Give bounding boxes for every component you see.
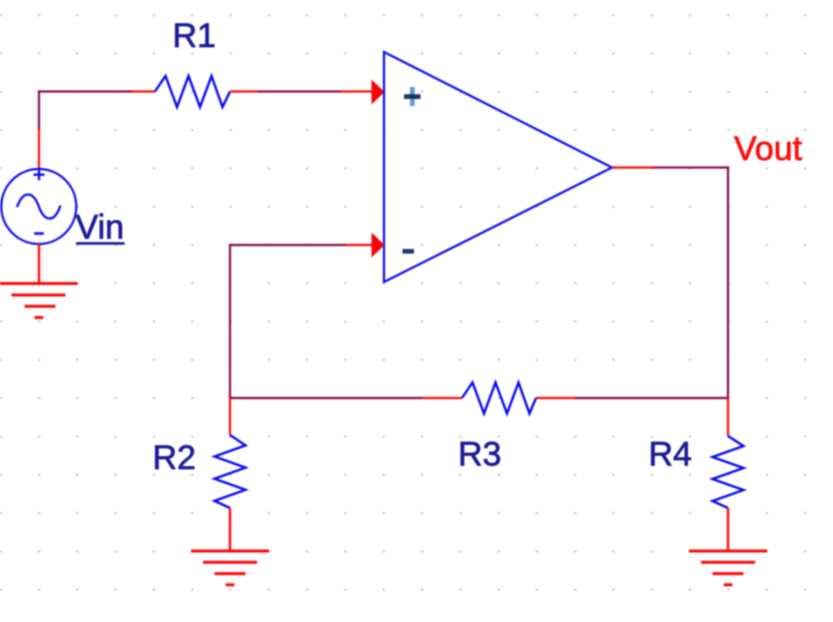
voltage source Vin bbox=[1, 169, 76, 244]
wire node A vertical (x=230) down to feedback rail bbox=[229, 244, 231, 398]
wire Vout corner down to feedback rail (x=728) bbox=[727, 166, 729, 398]
resistor R2 bbox=[215, 435, 246, 508]
feedback rail wire y=398 right segment bbox=[536, 397, 729, 399]
resistor R3 bbox=[462, 383, 536, 414]
svg-text:R3: R3 bbox=[458, 435, 501, 473]
svg-text:R4: R4 bbox=[649, 436, 692, 474]
feedback rail wire y=398 left segment bbox=[229, 397, 462, 399]
wire junction to R2 bbox=[229, 398, 231, 435]
op-amp - input marker bbox=[403, 249, 415, 254]
op-amp + input marker bbox=[404, 87, 421, 106]
arrowhead at op-amp + input pin bbox=[372, 80, 385, 105]
wire R2 to ground bbox=[229, 508, 231, 551]
arrowhead at op-amp - input pin bbox=[372, 233, 385, 258]
op-amp U1 bbox=[384, 52, 612, 282]
wire Vin bottom to ground bbox=[38, 244, 40, 284]
wire R4 to ground bbox=[727, 508, 729, 551]
resistor R1 bbox=[155, 76, 230, 107]
ground under R2 bbox=[191, 551, 269, 585]
svg-text:Vout: Vout bbox=[734, 130, 803, 168]
wire op-amp output to Vout corner bbox=[612, 166, 729, 168]
ground under Vin bbox=[0, 284, 78, 318]
ground under R4 bbox=[689, 551, 767, 585]
wire junction to R4 bbox=[727, 398, 729, 436]
wire from node A to op-amp - input bbox=[230, 244, 373, 246]
resistor R4 bbox=[713, 436, 744, 508]
svg-text:Vin: Vin bbox=[76, 209, 125, 247]
wire from Vin top to R1 (corner at 39,91.5) bbox=[38, 90, 155, 169]
wire from R1 to op-amp + input bbox=[230, 90, 373, 92]
svg-text:R2: R2 bbox=[153, 439, 196, 477]
svg-text:R1: R1 bbox=[173, 17, 216, 55]
